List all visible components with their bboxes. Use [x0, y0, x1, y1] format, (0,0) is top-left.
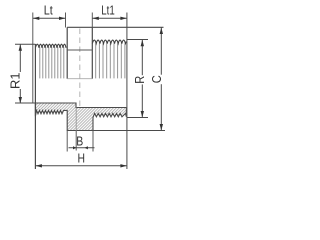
R dimension line — [141, 40, 143, 118]
C bottom arrowhead — [160, 124, 163, 130]
Lt right arrowhead — [59, 17, 65, 20]
C bottom extension line (hex bottom edge extended right) — [93, 130, 165, 132]
Lt dimension line — [33, 17, 66, 19]
R1 top arrowhead — [19, 44, 22, 50]
R bottom arrowhead — [141, 111, 144, 117]
Lt right extension line — [65, 13, 67, 28]
centerline (vertical dashed axis of hex body) — [79, 29, 81, 131]
H right arrowhead — [120, 164, 126, 167]
left thread crest profile (rounded bumps, top half) — [35, 44, 66, 48]
Lt1 right arrowhead — [120, 17, 126, 20]
R1 dimension line — [19, 44, 21, 103]
label R (rotated) — [136, 75, 145, 84]
R top arrowhead — [141, 40, 144, 46]
section cross-hatched material (bottom half-section with thread profiles) — [35, 103, 126, 131]
svg-text:R1: R1 — [8, 72, 23, 89]
B left extension line (below part) — [75, 131, 77, 151]
svg-text:R: R — [132, 76, 147, 84]
label R1 (rotated) — [12, 72, 22, 89]
Lt1 left arrowhead — [92, 17, 98, 20]
C top arrowhead — [160, 28, 163, 34]
right thread R flank lines (top half) — [96, 43, 125, 78]
hex body left edge — [66, 27, 68, 78]
left thread R1 flank lines (top half) — [40, 47, 64, 78]
R1 bottom arrowhead — [19, 97, 22, 103]
R1 bottom extension line — [15, 102, 35, 104]
hex top edge + C top extension line — [67, 26, 163, 28]
svg-text:Lt: Lt — [44, 3, 53, 18]
Lt1 dimension line — [92, 17, 127, 19]
hex facet edge line — [67, 49, 92, 51]
R bottom extension line — [127, 117, 148, 119]
label C (rotated) — [153, 75, 163, 85]
svg-text:C: C — [149, 75, 164, 83]
B outer-left extension line (hex left edge extended) — [66, 131, 68, 152]
right thread crest profile (rounded bumps, top half) — [92, 40, 126, 44]
B left arrowhead — [73, 146, 76, 149]
R top extension line — [127, 39, 148, 41]
B right arrowhead — [85, 146, 88, 149]
Lt left extension line — [32, 13, 34, 104]
Lt1 left extension line — [91, 13, 93, 28]
C dimension line — [160, 28, 162, 131]
svg-text:B: B — [76, 134, 83, 149]
B right extension line (hex right edge extended) — [92, 131, 94, 152]
left end face (also H left extension line) — [34, 44, 36, 169]
svg-text:Lt1: Lt1 — [101, 3, 115, 18]
hex body right edge — [91, 27, 93, 78]
hex band bottom boundary at axis (light) — [67, 78, 92, 80]
right end face (also Lt1 / H right extension line) — [126, 13, 128, 170]
H left arrowhead — [36, 164, 42, 167]
svg-text:H: H — [77, 150, 85, 165]
H dimension line — [35, 165, 127, 167]
Lt left arrowhead — [33, 17, 39, 20]
R1 top extension line — [15, 43, 35, 45]
B dimension line — [69, 147, 95, 149]
bore step line extended as B extension (upper faint part) — [75, 108, 77, 131]
